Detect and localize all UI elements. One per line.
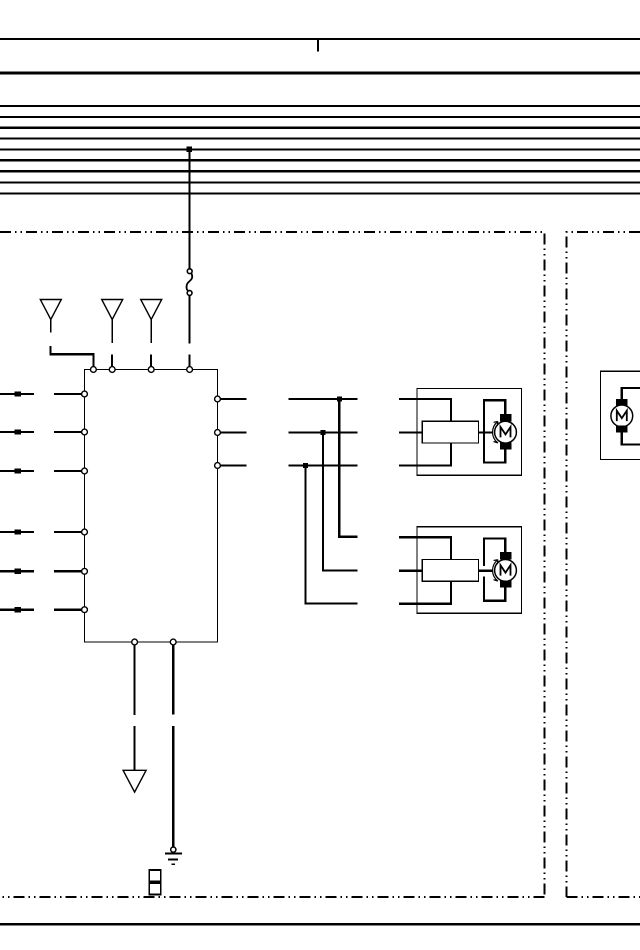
wire: vertical feed from bus — [188, 149, 190, 268]
motor M1 label — [501, 427, 511, 437]
wire: bus line 5 — [0, 148, 640, 150]
rotation arrow M2 — [493, 560, 498, 581]
wire: bus line 7 — [0, 170, 640, 172]
wire: branch C down — [306, 466, 358, 604]
motor M2 — [495, 560, 517, 582]
brush: M3 bottom — [616, 425, 628, 432]
brush: M3 top — [616, 399, 628, 406]
resistor block M2 — [422, 560, 478, 582]
motor assembly M2 box — [417, 527, 522, 614]
connector C1 link curve — [186, 274, 192, 291]
motor M2 label — [501, 565, 511, 575]
wire: M1 feed 1 — [399, 399, 451, 421]
pin: left 2 — [82, 429, 88, 435]
pin: top 1 — [91, 367, 97, 373]
wire: output 3 — [220, 464, 357, 466]
pin: top 4 — [187, 367, 193, 373]
wire: M2 feed 1 — [399, 537, 451, 559]
motor assembly M3 box (right module, clipped) — [600, 371, 640, 459]
antenna ANT3 — [141, 300, 162, 320]
antenna ANT2 stem — [111, 320, 113, 344]
pin: top 2 — [109, 367, 115, 373]
wire: connector to unit — [189, 296, 191, 367]
junction on bus line 5 — [187, 147, 192, 152]
right module dashed boundary — [567, 232, 640, 897]
wire: M1 feed 3 — [399, 443, 451, 466]
rotation arrow M1 — [493, 422, 498, 443]
brush: M2 top — [500, 552, 512, 560]
pin: bottom 1 — [132, 639, 138, 645]
wire: bus line 9 — [0, 192, 640, 194]
pin: left 5 — [82, 568, 88, 574]
ground terminal eyelet — [171, 847, 176, 852]
connector block on left input 6 — [14, 607, 21, 612]
pin: left 6 — [82, 607, 88, 613]
pin: bottom 2 — [170, 639, 176, 645]
wire: left input 4 — [0, 531, 82, 533]
wire: top horizontal rail — [0, 38, 640, 40]
pin: top 3 — [148, 367, 154, 373]
connector marker square 2 — [149, 883, 161, 894]
wire: branch B down — [323, 433, 358, 571]
wire: bus line 2 — [0, 116, 640, 118]
motor M1 — [495, 421, 517, 443]
antenna ANT2 — [102, 300, 123, 320]
wire: bus line 8 — [0, 181, 640, 183]
motor M3 — [611, 405, 633, 427]
wire: output 2 — [220, 431, 357, 433]
connector C1 upper terminal — [187, 269, 192, 274]
brush: M1 bottom — [500, 442, 512, 449]
shield terminal triangle — [123, 770, 146, 792]
wire: left input 1 — [0, 393, 82, 395]
connector block on left input 3 — [14, 468, 21, 473]
wire: second horizontal rail — [0, 72, 640, 75]
wire: antenna ANT2 lead — [111, 355, 113, 367]
wire: bottom border line — [0, 923, 640, 926]
control unit U1 — [85, 370, 218, 643]
junction on output 1 — [337, 397, 342, 402]
junction on output 2 — [321, 430, 326, 435]
connector C1 lower terminal — [187, 291, 192, 296]
pin: right 2 — [215, 430, 221, 436]
resistor block M1 — [422, 421, 478, 443]
motor M3 label — [617, 411, 627, 421]
junction on output 3 — [303, 463, 308, 468]
pin: right 3 — [215, 463, 221, 469]
brush: M1 top — [500, 414, 512, 422]
wire: M1 motor loop — [484, 399, 505, 464]
connector block on left input 1 — [14, 391, 21, 396]
pin: left 4 — [82, 529, 88, 535]
wire: bus line 4 — [0, 137, 640, 139]
antenna ANT1 — [40, 300, 61, 320]
connector block on left input 2 — [14, 429, 21, 434]
left module dashed boundary — [0, 232, 545, 897]
node: tick on top rail — [317, 39, 319, 51]
wire: bus line 3 — [0, 127, 640, 129]
pin: left 1 — [82, 391, 88, 397]
wire: M2 motor loop — [484, 537, 505, 602]
wire: M3 top lead — [622, 388, 640, 399]
wire: bus line 6 — [0, 159, 640, 161]
wire: left input 5 — [0, 570, 82, 572]
connector block on left input 5 — [14, 569, 21, 574]
antenna ANT3 stem — [150, 320, 152, 344]
wire: antenna ANT3 lead — [150, 355, 152, 367]
ground G1 — [165, 853, 182, 864]
brush: M2 bottom — [500, 581, 512, 588]
wire: left input 6 — [0, 609, 82, 611]
wire: left input 3 — [0, 470, 82, 472]
wire: antenna ANT1 lead — [51, 346, 94, 366]
connector block on left input 4 — [14, 529, 21, 534]
wire: M2 feed 3 — [399, 581, 451, 604]
wire: M3 bottom lead — [622, 433, 640, 445]
motor assembly M1 box — [417, 389, 522, 476]
wire: M1 feed 2 — [399, 431, 493, 433]
wire: output 1 — [220, 398, 357, 400]
pin: right 1 — [215, 396, 221, 402]
wire: M2 feed 2 — [399, 570, 493, 572]
wire: U1 bottom lead 2 (ground lead) — [172, 645, 174, 847]
wire: branch A down — [339, 399, 357, 537]
wire: left input 2 — [0, 431, 82, 433]
pin: left 3 — [82, 468, 88, 474]
wire: bus line 1 — [0, 105, 640, 107]
wire: U1 bottom lead 1 — [134, 645, 136, 770]
antenna ANT1 stem — [50, 320, 52, 333]
connector marker square 1 — [149, 870, 161, 882]
